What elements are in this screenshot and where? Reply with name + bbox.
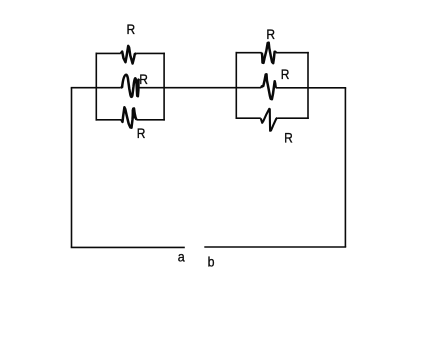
wire: left bank box bottom edge (left of resistor): [96, 119, 122, 121]
svg-text:R: R: [266, 26, 275, 42]
wire: middle horizontal between left and right banks: [139, 87, 261, 89]
svg-text:R: R: [281, 66, 290, 82]
wire: left bank box bottom edge (right of resistor): [136, 119, 165, 121]
wire: middle horizontal from left loop to left bank squiggle: [71, 87, 121, 89]
wire: right bank box top edge (right of resistor): [276, 52, 309, 54]
resistor R6 squiggle (right bank, bottom branch): [261, 109, 278, 131]
wire: outer loop bottom horizontal left segment to terminal a: [71, 246, 185, 248]
wire: outer loop left vertical: [71, 88, 73, 248]
node: right bank box right edge: [307, 52, 309, 119]
svg-text:a: a: [178, 249, 185, 265]
resistor R4 squiggle (right bank, top branch): [262, 43, 276, 64]
resistor R5 squiggle (right bank, middle branch): [261, 74, 276, 99]
node: left bank box left edge: [95, 53, 97, 121]
svg-text:R: R: [127, 21, 136, 37]
svg-text:R: R: [284, 130, 293, 146]
resistor R2 squiggle (left bank, middle branch): [121, 75, 140, 97]
wire: outer loop right vertical: [344, 88, 346, 247]
wire: right bank box top edge (left of resistor): [236, 52, 262, 54]
resistor R1 squiggle (left bank, top branch): [121, 46, 136, 64]
wire: left bank box top edge (left of resistor): [96, 52, 121, 54]
resistor R3 squiggle (left bank, bottom branch): [121, 107, 136, 127]
node: right bank box left edge: [235, 52, 237, 119]
wire: middle horizontal from right bank squiggle to right loop: [276, 87, 347, 89]
wire: outer loop bottom horizontal right segment from terminal b: [204, 246, 346, 248]
svg-text:R: R: [139, 71, 148, 87]
svg-text:R: R: [137, 125, 146, 141]
wire: left bank box top edge (right of resistor): [136, 52, 165, 54]
node: left bank box right edge: [163, 53, 165, 121]
svg-text:b: b: [208, 254, 215, 270]
wire: right bank box bottom edge (right of resistor): [277, 117, 309, 119]
wire: right bank box bottom edge (left of resistor): [236, 117, 261, 119]
resistor R3 thick up-stroke detail: [132, 110, 136, 119]
